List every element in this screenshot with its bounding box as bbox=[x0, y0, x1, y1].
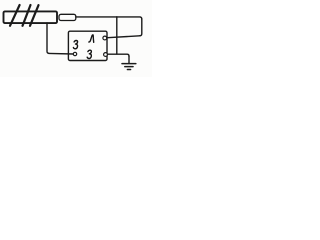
hatch stroke 2 of EK1 bbox=[23, 5, 31, 26]
wire: plug tip to top-right corner bbox=[76, 17, 142, 19]
hatch stroke 3 of EK1 bbox=[30, 5, 39, 26]
terminal circle Л top-right bbox=[103, 36, 107, 40]
ground symbol bar 1 bbox=[122, 63, 136, 65]
terminal circle З bottom-right bbox=[104, 53, 108, 57]
wire: EK1 bottom lead down bbox=[47, 23, 49, 53]
wire: right vertical drop bbox=[140, 19, 142, 36]
wire: horizontal into terminal Л bbox=[108, 36, 140, 38]
ground symbol bar 3 bbox=[127, 69, 130, 71]
connector plug X1 of EK1 bbox=[59, 14, 76, 20]
wire: horizontal into left terminal З bbox=[49, 52, 73, 55]
label З (bottom terminal) bbox=[87, 50, 91, 58]
hatch stroke 1 of EK1 bbox=[10, 5, 20, 26]
wire: ground drop bbox=[128, 56, 130, 63]
heating element EK1 body (hatched rectangle) bbox=[4, 11, 58, 23]
wire: bottom terminal З to ground corner bbox=[108, 54, 130, 56]
ground symbol bar 2 bbox=[125, 66, 133, 68]
label Л (line terminal) bbox=[89, 35, 94, 43]
wire: branch vertical to ground bus bbox=[116, 17, 118, 54]
terminal circle З left bbox=[73, 52, 76, 55]
label З (left terminal) bbox=[73, 40, 77, 48]
terminal box (socket) outline bbox=[68, 31, 107, 60]
